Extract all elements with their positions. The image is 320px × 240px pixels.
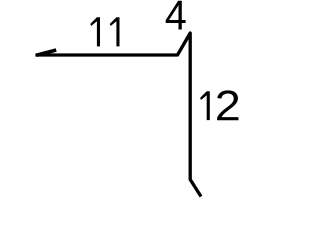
- hem hook at left end: [36, 50, 56, 55]
- wire: main profile polyline: [35, 33, 201, 197]
- dimension label 4: [166, 1, 186, 30]
- dimension label 11 digit 1a: [90, 17, 100, 46]
- dimension label 12 digit 1: [200, 91, 210, 120]
- dimension label 12 digit 2: [217, 90, 238, 120]
- dimension label 11 digit 1b: [110, 17, 120, 46]
